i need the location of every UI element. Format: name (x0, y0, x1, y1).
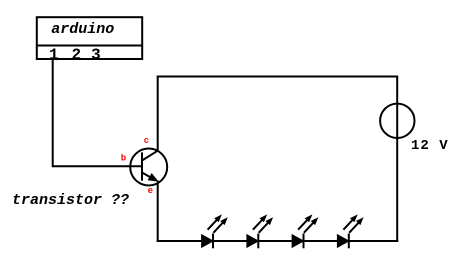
right wire through source (396, 77, 398, 243)
arduino box divider line (37, 45, 142, 47)
label e (emitter) (148, 186, 153, 196)
svg-text:1: 1 (49, 46, 59, 64)
transistor Q1 base bar (141, 152, 143, 180)
wire collector up to top rail (157, 77, 159, 151)
transistor Q1 emitter line with arrow (142, 173, 158, 182)
label c (collector) (144, 136, 149, 146)
bottom wire (157, 240, 399, 242)
arduino box (37, 17, 142, 59)
LED D2 (247, 214, 273, 248)
pin 1 (49, 46, 59, 64)
transistor Q1 body circle (130, 149, 167, 186)
top wire (157, 76, 399, 78)
voltage source V1 circle (380, 104, 414, 138)
svg-text:e: e (148, 186, 153, 196)
label arduino (51, 21, 114, 38)
wire emitter down to bottom rail (157, 181, 159, 243)
svg-text:c: c (144, 136, 149, 146)
LED D4 (337, 214, 363, 248)
svg-text:2: 2 (71, 46, 81, 64)
transistor Q1 collector line (142, 151, 158, 161)
svg-text:12 V: 12 V (411, 138, 449, 154)
pin 2 (71, 46, 81, 64)
LED D1 (202, 214, 228, 248)
svg-text:3: 3 (91, 46, 101, 64)
wire pin1 to transistor base (53, 59, 142, 166)
label transistor ?? (12, 192, 129, 209)
LED D3 (292, 214, 318, 248)
pin 3 (91, 46, 101, 64)
label 12 V (411, 138, 449, 154)
svg-text:arduino: arduino (51, 21, 114, 38)
svg-text:b: b (121, 153, 126, 163)
svg-text:transistor ??: transistor ?? (12, 192, 129, 209)
label b (base) (121, 153, 126, 163)
